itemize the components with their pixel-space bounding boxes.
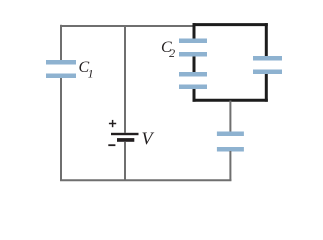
capacitor C1 top plate	[46, 60, 76, 65]
wire: outer bottom horizontal	[60, 179, 231, 181]
capacitor C2 top plate	[179, 39, 207, 44]
wire: middle branch vertical upper segment	[124, 25, 126, 133]
capacitor (right branch) bottom plate	[253, 70, 282, 75]
wire: bottom-capacitor branch upper vertical	[229, 101, 231, 132]
battery V long plate (positive)	[111, 133, 139, 135]
wire: middle branch vertical lower segment	[124, 142, 126, 181]
wire: outer top horizontal	[60, 25, 195, 27]
capacitor C1 bottom plate	[46, 74, 76, 79]
svg-text:C1: C1	[79, 59, 94, 81]
wire: black loop right branch top segment	[265, 23, 268, 56]
capacitor (series, unlabeled) top plate	[179, 72, 207, 77]
wire: outer left vertical lower segment	[60, 78, 62, 181]
capacitor (bottom branch) top plate	[217, 132, 244, 137]
wire: black loop top edge	[193, 23, 268, 26]
capacitor (series, unlabeled) bottom plate	[179, 85, 207, 90]
svg-text:C2: C2	[161, 39, 175, 60]
svg-text:V: V	[142, 129, 155, 149]
capacitor (right branch) top plate	[253, 56, 282, 61]
wire: black loop left branch top segment	[193, 23, 196, 38]
wire: outer left vertical upper segment	[60, 25, 62, 60]
wire: black loop left branch bottom segment	[193, 89, 196, 102]
capacitor C2 bottom plate	[179, 52, 207, 57]
battery V short plate (negative)	[117, 138, 134, 142]
wire: black loop left branch middle segment	[193, 57, 196, 73]
wire: bottom-capacitor branch lower vertical	[229, 151, 231, 181]
label + (battery positive)	[109, 120, 116, 127]
wire: black loop right branch bottom segment	[265, 74, 268, 102]
wire: black loop bottom edge	[193, 99, 268, 102]
capacitor (bottom branch) bottom plate	[217, 147, 244, 152]
label - (battery negative)	[108, 144, 115, 146]
